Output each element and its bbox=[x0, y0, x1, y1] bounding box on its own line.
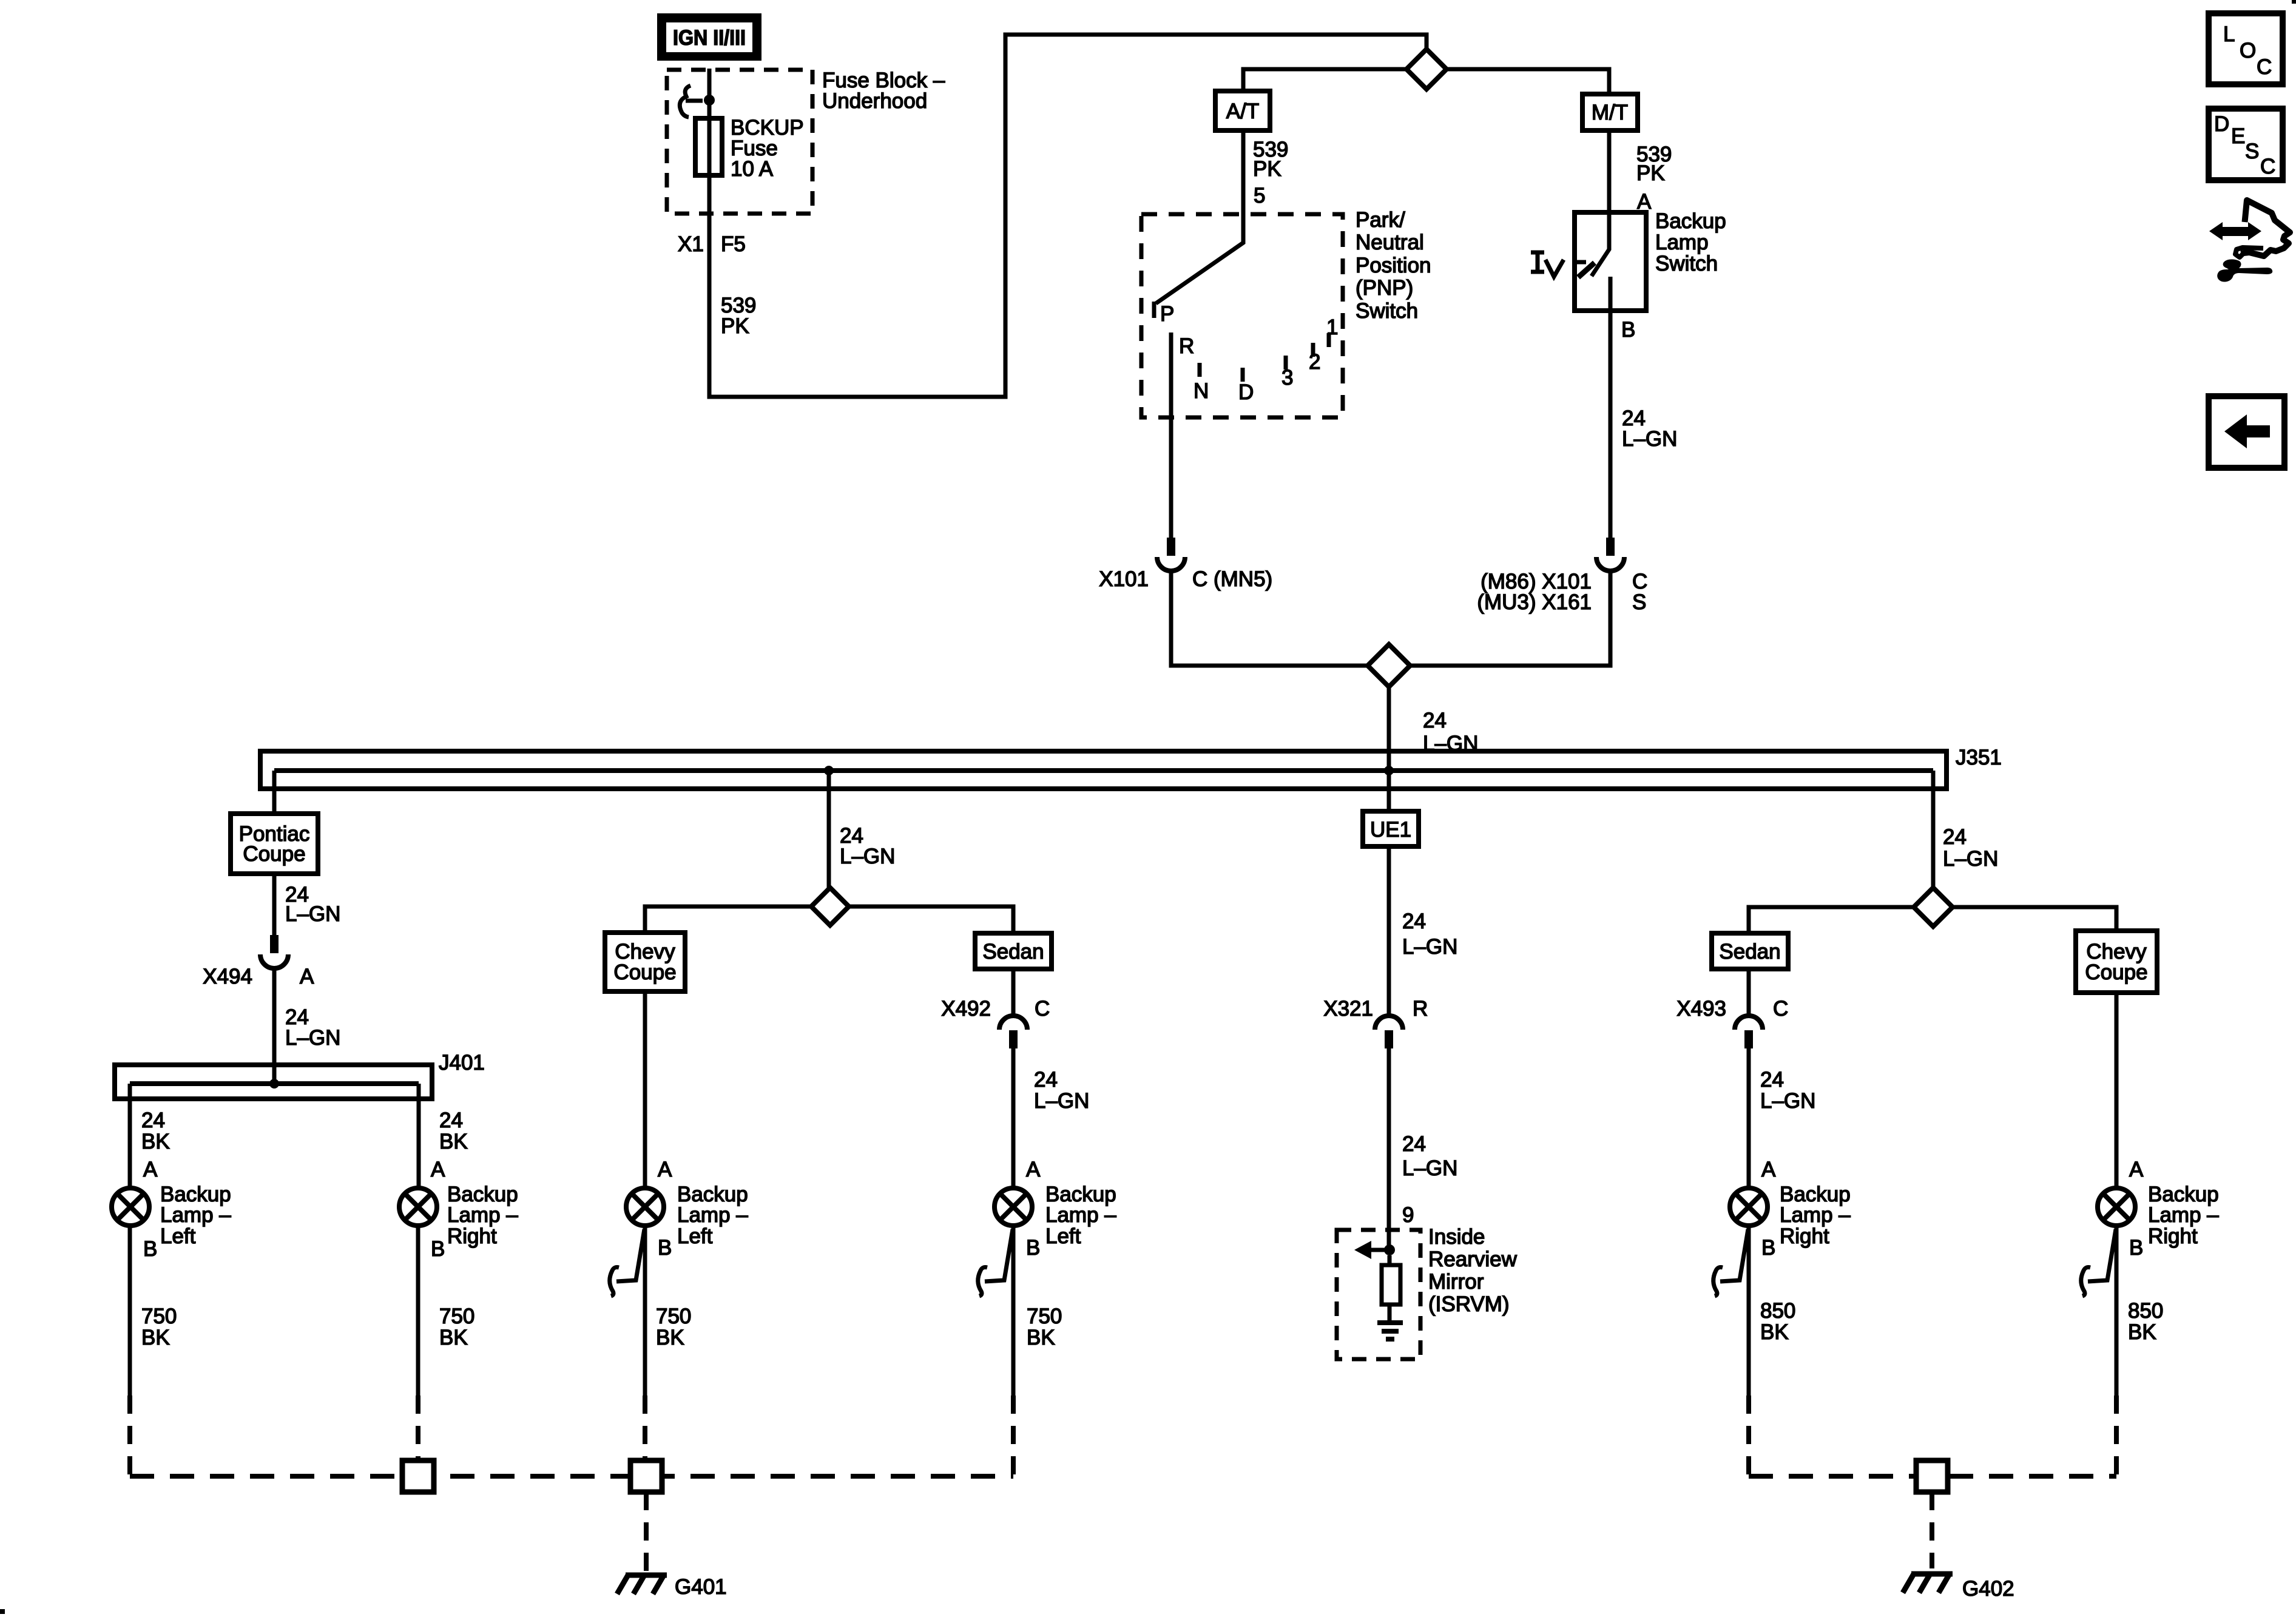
svg-text:A: A bbox=[300, 965, 314, 988]
svg-text:BK: BK bbox=[656, 1326, 684, 1349]
svg-text:Lamp –: Lamp – bbox=[1780, 1203, 1851, 1227]
svg-text:(ISRVM): (ISRVM) bbox=[1428, 1292, 1510, 1316]
connector X494 male pin bbox=[270, 935, 279, 953]
svg-text:Lamp –: Lamp – bbox=[2148, 1203, 2219, 1227]
icon box LOC bbox=[2209, 13, 2283, 84]
wire J401 to right lamp bbox=[417, 1084, 421, 1188]
wire X101 to diamond bbox=[1171, 571, 1368, 666]
option box Chevy Coupe (right) bbox=[2076, 931, 2157, 993]
svg-text:24: 24 bbox=[1402, 910, 1426, 933]
dashed leg to ground G402 bbox=[1930, 1492, 1934, 1568]
connector (M86) X101 / (MU3) X161 female cup bbox=[1596, 557, 1624, 571]
svg-text:A: A bbox=[1026, 1158, 1041, 1181]
wire X492 to lamp bbox=[1011, 1048, 1016, 1188]
svg-text:Rearview: Rearview bbox=[1428, 1247, 1518, 1271]
wire Sedan to X492 bbox=[1011, 969, 1016, 1016]
dashed ground leg (sedan left) bbox=[1011, 1396, 1016, 1476]
dashed ground leg (sedan right) bbox=[1746, 1396, 1751, 1476]
wire label 539 PK (M/T branch) bbox=[1636, 143, 1672, 185]
svg-text:X494: X494 bbox=[203, 965, 252, 988]
wire label 24 L-GN (UE1 branch) bbox=[1402, 910, 1457, 959]
svg-text:BK: BK bbox=[141, 1130, 170, 1153]
svg-text:PK: PK bbox=[1253, 157, 1281, 181]
svg-text:Right: Right bbox=[447, 1224, 497, 1248]
svg-text:B: B bbox=[1761, 1236, 1775, 1260]
svg-text:R: R bbox=[1413, 997, 1428, 1021]
svg-text:B: B bbox=[2129, 1236, 2143, 1260]
power label IGN II/III bbox=[657, 13, 761, 61]
svg-text:L–GN: L–GN bbox=[1034, 1089, 1089, 1113]
svg-text:B: B bbox=[143, 1237, 157, 1261]
ground symbol G402 bbox=[1903, 1574, 1953, 1593]
svg-text:A: A bbox=[2129, 1158, 2144, 1181]
wire bus to coupe/sedan diamond bbox=[827, 771, 831, 888]
wire diamond to Chevy Coupe box (right) bbox=[1953, 907, 2116, 931]
wire resistor to ground bbox=[1388, 1305, 1392, 1322]
svg-text:C: C bbox=[2260, 155, 2275, 178]
wire M/T to backup lamp switch bbox=[1607, 130, 1612, 212]
junction dot in ISRVM bbox=[1384, 1244, 1395, 1255]
svg-text:Park/: Park/ bbox=[1356, 208, 1405, 232]
backup lamp left (pontiac) bbox=[112, 1188, 149, 1226]
label Backup Lamp - Right bbox=[1780, 1183, 1851, 1248]
svg-text:B: B bbox=[1621, 318, 1635, 342]
splice box (chevy left leg) bbox=[630, 1460, 662, 1492]
svg-text:Inside: Inside bbox=[1428, 1225, 1485, 1249]
junction dot on bus (UE1 feed) bbox=[1384, 766, 1394, 775]
svg-text:C: C bbox=[1773, 997, 1788, 1021]
contact tick 2 bbox=[1311, 343, 1315, 357]
wire diamond to M/T bbox=[1447, 69, 1609, 94]
wire lamp to ground net bbox=[2115, 1226, 2119, 1396]
dashed ground leg (chevy left) bbox=[643, 1396, 647, 1458]
wire from fuse block top to fuse bbox=[707, 69, 712, 220]
svg-text:Coupe: Coupe bbox=[243, 842, 305, 866]
connector X492 male pin bbox=[1009, 1030, 1018, 1048]
fuse F5 BCKUP 10 A bbox=[695, 118, 722, 175]
contact tick 1 bbox=[1327, 333, 1331, 347]
service jump icon (outline) bbox=[2235, 200, 2290, 257]
junction dot on J401 bbox=[269, 1079, 279, 1089]
svg-text:24: 24 bbox=[1402, 1132, 1426, 1156]
label Backup Lamp - Right bbox=[2148, 1183, 2219, 1248]
ISRVM dashed box bbox=[1337, 1230, 1420, 1359]
wire dot to resistor bbox=[1388, 1255, 1392, 1265]
service jump icon (double arrow) bbox=[2209, 222, 2261, 240]
splice diamond (transmission join) bbox=[1368, 644, 1410, 687]
svg-text:2: 2 bbox=[1309, 350, 1320, 374]
label (M86) X101 (MU3) X161 bbox=[1477, 570, 1592, 614]
connector X101 C (MN5) male pin bbox=[1167, 538, 1175, 556]
svg-text:24: 24 bbox=[1034, 1068, 1058, 1092]
svg-text:Position: Position bbox=[1356, 254, 1431, 277]
svg-text:O: O bbox=[2240, 39, 2256, 62]
wire label 24 L-GN (pontiac above X494) bbox=[285, 883, 340, 926]
svg-text:X1: X1 bbox=[678, 232, 704, 256]
option box Chevy Coupe (left) bbox=[605, 933, 685, 991]
svg-text:B: B bbox=[1026, 1236, 1040, 1260]
svg-text:750: 750 bbox=[656, 1305, 691, 1328]
svg-text:Lamp –: Lamp – bbox=[447, 1203, 518, 1227]
wire label 24 L-GN (coupe/sedan feed) bbox=[840, 824, 895, 868]
svg-text:Right: Right bbox=[1780, 1224, 1829, 1248]
svg-text:UE1: UE1 bbox=[1370, 818, 1411, 842]
wire J401 to left lamp bbox=[128, 1084, 132, 1188]
splice pack J351 outer rails bbox=[260, 751, 1947, 789]
svg-text:D: D bbox=[2214, 112, 2229, 136]
svg-text:Switch: Switch bbox=[1356, 299, 1418, 323]
icon box DESC bbox=[2209, 109, 2283, 180]
dashed ground trunk G402 bbox=[1749, 1474, 2116, 1479]
svg-text:5: 5 bbox=[1254, 184, 1265, 208]
svg-text:X321: X321 bbox=[1323, 997, 1373, 1021]
svg-text:L–GN: L–GN bbox=[840, 845, 895, 868]
wire label 750 BK bbox=[656, 1305, 691, 1349]
svg-text:L–GN: L–GN bbox=[285, 1026, 340, 1050]
svg-text:L: L bbox=[2223, 22, 2235, 46]
svg-text:BK: BK bbox=[141, 1326, 170, 1349]
svg-text:BK: BK bbox=[2128, 1320, 2156, 1344]
wire label 24 L-GN (M/T branch) bbox=[1622, 407, 1677, 451]
wire label 24 L-GN (to bus) bbox=[1423, 709, 1478, 755]
svg-text:BK: BK bbox=[439, 1326, 468, 1349]
splice box (pontiac right leg) bbox=[402, 1460, 434, 1492]
wire label 24 L-GN (pontiac below X494) bbox=[285, 1005, 340, 1050]
splice pack J401 outer rails bbox=[115, 1065, 432, 1099]
label Inside Rearview Mirror (ISRVM) bbox=[1428, 1225, 1518, 1316]
svg-text:Lamp –: Lamp – bbox=[1045, 1203, 1116, 1227]
wire label 24 L-GN (mirror branch) bbox=[1402, 1132, 1457, 1180]
wire label 750 BK bbox=[1027, 1305, 1062, 1349]
svg-text:Switch: Switch bbox=[1655, 252, 1718, 275]
backup lamp right (pontiac) bbox=[399, 1188, 437, 1226]
backup lamp left (chevy coupe) bbox=[626, 1188, 664, 1226]
lamp ground pigtail bbox=[2081, 1229, 2116, 1296]
wire bus to Pontiac Coupe bbox=[272, 771, 277, 814]
splice pack J351 inner rail bbox=[274, 768, 1933, 773]
label C S bbox=[1632, 570, 1647, 614]
svg-text:R: R bbox=[1179, 334, 1194, 358]
wire label 24 BK (right) bbox=[439, 1109, 468, 1153]
svg-text:750: 750 bbox=[1027, 1305, 1062, 1328]
option box UE1 bbox=[1363, 811, 1419, 846]
option box Sedan (right) bbox=[1712, 933, 1788, 969]
svg-text:Coupe: Coupe bbox=[613, 960, 676, 984]
svg-text:IGN II/III: IGN II/III bbox=[673, 26, 746, 50]
svg-text:A: A bbox=[431, 1158, 445, 1181]
service jump icon (wrench) bbox=[2217, 259, 2272, 282]
svg-text:Left: Left bbox=[1045, 1224, 1081, 1248]
svg-text:G401: G401 bbox=[675, 1575, 727, 1599]
scan artifact dot top right bbox=[2292, 0, 2296, 4]
svg-text:Underhood: Underhood bbox=[822, 89, 927, 113]
svg-text:L–GN: L–GN bbox=[285, 902, 340, 926]
svg-text:J401: J401 bbox=[439, 1051, 485, 1075]
wire lamp to ground net bbox=[1011, 1226, 1016, 1396]
backup lamp right (chevy coupe) bbox=[2098, 1188, 2135, 1226]
lamp ground pigtail bbox=[978, 1229, 1013, 1296]
label Fuse Block - Underhood bbox=[822, 69, 945, 113]
svg-text:PK: PK bbox=[1636, 161, 1665, 185]
connector X493 male pin bbox=[1744, 1030, 1753, 1048]
svg-text:Left: Left bbox=[160, 1224, 196, 1248]
svg-text:24: 24 bbox=[1943, 825, 1967, 849]
splice diamond (sedan / chevy coupe right) bbox=[1914, 888, 1953, 927]
wire diamond to A/T bbox=[1243, 69, 1406, 91]
dashed ground trunk G401 bbox=[130, 1474, 1013, 1479]
wire label 539 PK (fuse output) bbox=[721, 294, 756, 338]
backup lamp right (sedan) bbox=[1730, 1188, 1768, 1226]
svg-text:A: A bbox=[143, 1158, 158, 1181]
contact tick N bbox=[1198, 363, 1202, 377]
svg-text:Left: Left bbox=[677, 1224, 713, 1248]
wire label 750 BK bbox=[439, 1305, 474, 1349]
splice diamond (A/T - M/T) bbox=[1406, 49, 1447, 89]
svg-text:3: 3 bbox=[1281, 366, 1293, 390]
wire label 539 PK (A/T branch) bbox=[1253, 138, 1288, 181]
fuse block dashed box bbox=[667, 70, 812, 214]
wire fuse to top rail and over to diamond bbox=[709, 35, 1427, 397]
connector (M86) X101 / (MU3) X161 male pin bbox=[1606, 538, 1615, 556]
svg-text:1: 1 bbox=[1326, 316, 1338, 339]
svg-text:L–GN: L–GN bbox=[1622, 427, 1677, 451]
svg-text:C: C bbox=[1035, 997, 1050, 1021]
svg-text:X101: X101 bbox=[1099, 567, 1149, 591]
backup lamp switch box bbox=[1575, 212, 1646, 311]
label Backup Lamp - Left bbox=[160, 1183, 231, 1248]
chassis ground in ISRVM bbox=[1377, 1323, 1403, 1339]
icon box back arrow bbox=[2209, 396, 2284, 468]
svg-text:G402: G402 bbox=[1962, 1577, 2014, 1601]
svg-text:Sedan: Sedan bbox=[982, 940, 1044, 964]
svg-text:750: 750 bbox=[439, 1305, 474, 1328]
svg-text:F5: F5 bbox=[721, 232, 746, 256]
wire Chevy Coupe to lamp bbox=[643, 991, 647, 1188]
switch internal contacts bbox=[1575, 212, 1610, 311]
backup lamp left (sedan) bbox=[994, 1188, 1032, 1226]
svg-text:9: 9 bbox=[1402, 1203, 1414, 1227]
dashed ground leg (pontiac left) bbox=[127, 1396, 132, 1476]
svg-text:24: 24 bbox=[439, 1109, 463, 1132]
wire X321 to ISRVM bbox=[1387, 1048, 1391, 1250]
connector X321 male pin bbox=[1385, 1030, 1393, 1048]
svg-text:C (MN5): C (MN5) bbox=[1192, 567, 1272, 591]
switch actuator symbol bbox=[1531, 252, 1564, 277]
contact tick P bbox=[1152, 302, 1156, 318]
wire bus to UE1 bbox=[1387, 771, 1391, 811]
connector X493 female cup bbox=[1735, 1016, 1763, 1030]
wire label 750 BK bbox=[141, 1305, 177, 1349]
PNP switch dashed box bbox=[1141, 214, 1343, 417]
wire label 24 L-GN (sedan right) bbox=[1760, 1068, 1815, 1113]
ground symbol G401 bbox=[617, 1575, 667, 1594]
svg-text:850: 850 bbox=[2128, 1299, 2163, 1323]
label Backup Lamp - Right bbox=[447, 1183, 518, 1248]
svg-text:M/T: M/T bbox=[1592, 101, 1628, 124]
contact tick 3 bbox=[1284, 356, 1288, 370]
lamp ground pigtail bbox=[610, 1229, 644, 1296]
svg-text:A: A bbox=[658, 1158, 672, 1181]
wire label 24 L-GN (right feed) bbox=[1943, 825, 1998, 871]
connector X492 female cup bbox=[999, 1016, 1027, 1030]
wire Chevy Coupe right to lamp bbox=[2115, 993, 2119, 1188]
wire bus right end to diamond bbox=[1931, 771, 1936, 888]
svg-text:X492: X492 bbox=[941, 997, 991, 1021]
svg-text:L–GN: L–GN bbox=[1402, 935, 1457, 959]
contact line R bbox=[1169, 333, 1173, 538]
wire X494 to J401 bbox=[272, 968, 277, 1084]
arrow into mirror bbox=[1368, 1248, 1387, 1252]
wire UE1 to X321 bbox=[1387, 846, 1391, 1016]
connector X494 female cup bbox=[260, 954, 288, 968]
wire diamond to J351 bus bbox=[1387, 687, 1391, 771]
splice box (G402) bbox=[1916, 1460, 1948, 1492]
lamp ground pigtail bbox=[1714, 1229, 1748, 1296]
svg-text:P: P bbox=[1160, 302, 1174, 326]
svg-text:Coupe: Coupe bbox=[2085, 960, 2147, 984]
svg-text:850: 850 bbox=[1760, 1299, 1795, 1323]
label BCKUP Fuse 10 A bbox=[731, 116, 804, 181]
contact tick D bbox=[1241, 368, 1245, 382]
label Park/Neutral Position (PNP) Switch bbox=[1356, 208, 1431, 323]
wire Sedan to X493 bbox=[1747, 969, 1751, 1016]
svg-text:S: S bbox=[2245, 140, 2259, 163]
svg-text:BK: BK bbox=[439, 1130, 468, 1153]
wire lamp to ground net bbox=[643, 1226, 647, 1396]
svg-text:E: E bbox=[2231, 124, 2245, 148]
option box Pontiac Coupe bbox=[231, 814, 318, 874]
option box M/T bbox=[1582, 94, 1638, 130]
svg-text:D: D bbox=[1238, 380, 1254, 404]
svg-text:24: 24 bbox=[1760, 1068, 1784, 1092]
svg-text:24: 24 bbox=[141, 1109, 165, 1132]
wire lamp to ground net bbox=[128, 1226, 132, 1396]
resistor in ISRVM bbox=[1382, 1265, 1400, 1305]
PNP switch blade to P bbox=[1156, 214, 1243, 303]
svg-text:Mirror: Mirror bbox=[1428, 1270, 1484, 1294]
wire Pontiac Coupe to X494 bbox=[272, 874, 277, 935]
wire X493 to lamp bbox=[1747, 1048, 1751, 1188]
wire lamp to ground net bbox=[416, 1226, 420, 1396]
svg-text:S: S bbox=[1632, 590, 1646, 614]
junction dot at fuse clip bbox=[704, 95, 715, 106]
svg-text:N: N bbox=[1194, 379, 1209, 403]
svg-text:BK: BK bbox=[1027, 1326, 1055, 1349]
svg-text:L–GN: L–GN bbox=[1760, 1089, 1815, 1113]
wire diamond to Sedan box (left) bbox=[849, 906, 1013, 933]
svg-text:L–GN: L–GN bbox=[1402, 1156, 1457, 1180]
label Backup Lamp - Left bbox=[677, 1183, 748, 1248]
scan artifact dot bottom left bbox=[0, 1609, 5, 1614]
svg-text:Lamp –: Lamp – bbox=[160, 1203, 231, 1227]
dashed ground leg (chevy right) bbox=[2114, 1396, 2119, 1476]
fuse clip symbol bbox=[680, 86, 703, 117]
wire X161 to diamond bbox=[1410, 571, 1610, 666]
svg-text:J351: J351 bbox=[1956, 746, 2002, 769]
wire diamond to Sedan box (right) bbox=[1749, 907, 1914, 933]
svg-text:B: B bbox=[658, 1236, 672, 1260]
connector X321 female cup bbox=[1375, 1016, 1403, 1030]
svg-text:10 A: 10 A bbox=[731, 157, 774, 181]
connector X101 C (MN5) female cup bbox=[1157, 557, 1185, 571]
svg-text:X493: X493 bbox=[1676, 997, 1726, 1021]
svg-text:(MU3) X161: (MU3) X161 bbox=[1477, 590, 1592, 614]
svg-text:BK: BK bbox=[1760, 1320, 1789, 1344]
svg-text:(PNP): (PNP) bbox=[1356, 276, 1413, 300]
svg-text:Right: Right bbox=[2148, 1224, 2198, 1248]
svg-text:C: C bbox=[2257, 55, 2272, 79]
label Backup Lamp Switch bbox=[1655, 209, 1726, 275]
option box Sedan (left) bbox=[975, 933, 1052, 969]
option box A/T bbox=[1215, 91, 1270, 130]
svg-text:Neutral: Neutral bbox=[1356, 231, 1424, 254]
dashed ground leg (pontiac right) bbox=[416, 1396, 420, 1458]
svg-text:750: 750 bbox=[141, 1305, 177, 1328]
svg-text:A: A bbox=[1761, 1158, 1776, 1181]
svg-text:Lamp –: Lamp – bbox=[677, 1203, 748, 1227]
svg-text:B: B bbox=[431, 1237, 445, 1261]
wire label 850 BK bbox=[2128, 1299, 2163, 1344]
label Backup Lamp - Left bbox=[1045, 1183, 1116, 1248]
svg-text:Backup: Backup bbox=[1655, 209, 1726, 233]
wire diamond to Chevy Coupe box bbox=[645, 906, 811, 933]
wire label 850 BK bbox=[1760, 1299, 1795, 1344]
wire switch B to connector bbox=[1609, 311, 1613, 538]
svg-text:Lamp: Lamp bbox=[1655, 231, 1709, 254]
wire A/T to PNP switch bbox=[1241, 130, 1246, 214]
svg-text:L–GN: L–GN bbox=[1943, 847, 1998, 871]
wire label 24 BK (left) bbox=[141, 1109, 170, 1153]
splice pack J401 inner rail bbox=[130, 1081, 419, 1086]
svg-text:Sedan: Sedan bbox=[1719, 940, 1780, 964]
svg-text:PK: PK bbox=[721, 314, 749, 338]
dashed leg to ground G401 bbox=[644, 1492, 649, 1572]
svg-text:24: 24 bbox=[1423, 709, 1447, 732]
wire lamp to ground net bbox=[1747, 1226, 1751, 1396]
svg-text:A/T: A/T bbox=[1226, 100, 1259, 123]
splice diamond (chevy coupe / sedan) bbox=[811, 888, 849, 925]
wire label 24 L-GN (sedan left) bbox=[1034, 1068, 1089, 1113]
junction dot on bus (coupe/sedan feed) bbox=[824, 766, 834, 775]
